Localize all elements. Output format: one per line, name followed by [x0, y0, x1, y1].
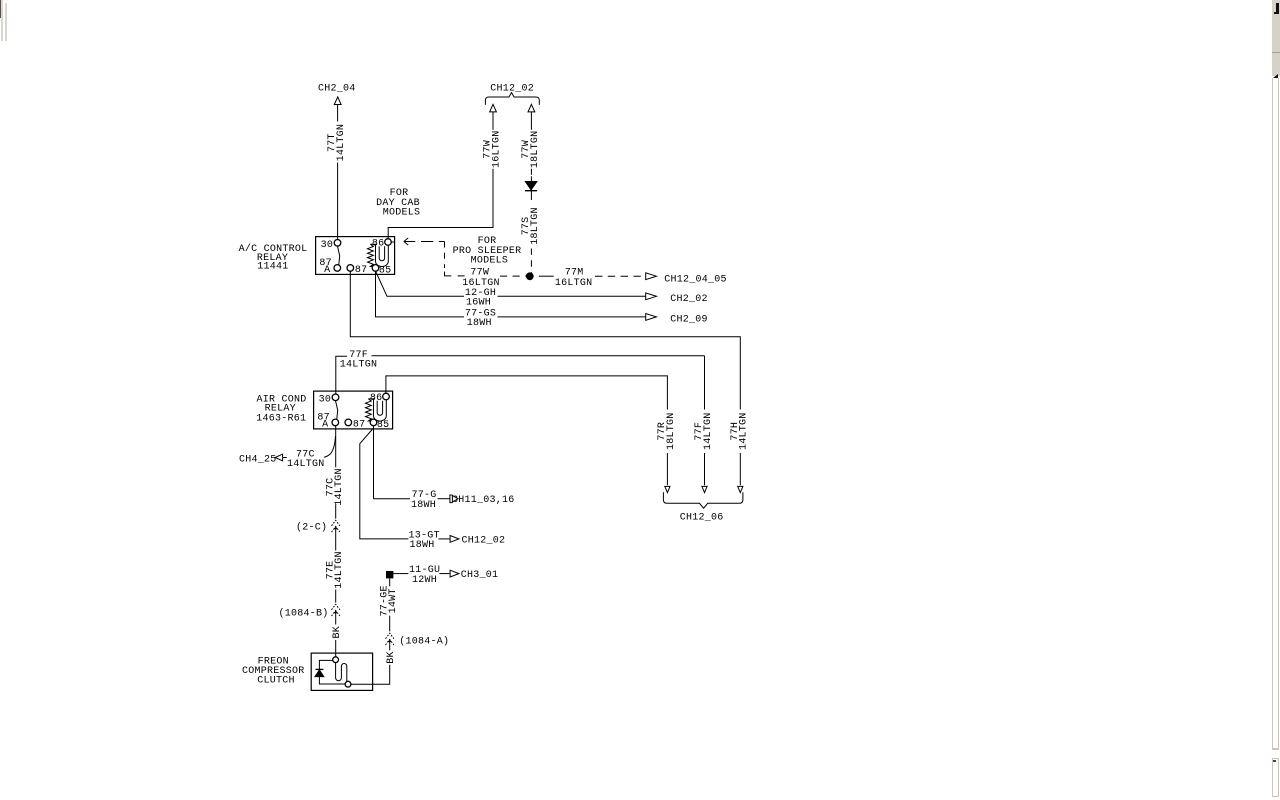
wire 77T lower segment into relay pin 30 [337, 163, 339, 240]
svg-text:MODELS: MODELS [383, 208, 421, 219]
svg-text:CH2_09: CH2_09 [670, 315, 708, 326]
svg-text:18WH: 18WH [411, 500, 436, 511]
wire 77W 18LTGN upper segment [530, 112, 532, 130]
connector arrow to CH2_02 [646, 293, 657, 300]
svg-text:CH12_04_05: CH12_04_05 [664, 274, 727, 285]
wire 77H lower segment [739, 453, 741, 485]
relay U2 air cond relay 1463-R61 switch blade 30-87A [336, 401, 338, 420]
svg-text:16WH: 16WH [466, 298, 491, 309]
wire 12-GH from U1 pin 85 [376, 271, 465, 296]
connector symbol CH12_02 pin A (open triangle) [490, 104, 497, 112]
svg-text:30: 30 [321, 240, 334, 251]
svg-text:MODELS: MODELS [471, 256, 509, 267]
left window-edge fragments [0, 0, 1, 18]
wire BK upper segment [389, 641, 391, 650]
wire 77H from U1 pin 87 to right column [350, 271, 740, 409]
svg-text:86: 86 [370, 393, 383, 404]
svg-text:(1084-A): (1084-A) [399, 635, 449, 647]
wire 77F lower segment [704, 453, 706, 485]
connector symbol CH12_02 pin B (open triangle) [528, 104, 535, 112]
relay U2 air cond relay 1463-R61 terminal 30 [332, 394, 339, 401]
right scrollbar: white track [1272, 78, 1279, 750]
wire 77F down to label [704, 356, 706, 410]
svg-text:18LTGN: 18LTGN [530, 131, 541, 169]
svg-text:14LTGN: 14LTGN [334, 468, 345, 506]
svg-text:CLUTCH: CLUTCH [257, 675, 295, 686]
right scrollbar: black mark top [1276, 3, 1278, 15]
wire 77F from U2 pin 30 up and right [336, 356, 347, 394]
wire stub from U1 pin 86 to box edge [391, 241, 394, 243]
svg-text:(1084-B): (1084-B) [279, 607, 329, 619]
svg-text:CH11_03,16: CH11_03,16 [452, 495, 515, 506]
wire 77E lower segment [335, 590, 337, 603]
wire BK from clutch bottom terminal [351, 665, 390, 684]
relay U1 A/C control relay 11441 terminal 87 [347, 265, 354, 272]
svg-text:18WH: 18WH [467, 318, 492, 329]
clutch terminal (bottom) [345, 681, 351, 687]
wire 13-GT right segment [439, 538, 450, 540]
freon compressor clutch box [311, 653, 372, 690]
wire 77C lower segment [335, 505, 337, 519]
wire 11-GU left segment [393, 573, 408, 575]
connector arrow to CH4_25 (points left) [275, 454, 282, 461]
svg-text:CH3_01: CH3_01 [461, 570, 499, 581]
svg-text:CH4_25: CH4_25 [239, 455, 277, 466]
wire 77R from U2 pin 86 up and right [386, 376, 668, 410]
relay U2 air cond relay 1463-R61 coil (zigzag) [366, 399, 373, 421]
wire 77T upper segment [337, 105, 339, 122]
svg-text:CH12_02: CH12_02 [490, 83, 534, 94]
connector arrow to CH2_09 [646, 314, 657, 321]
inline connector (1084-B) splice symbol [332, 604, 340, 616]
svg-text:16LTGN: 16LTGN [491, 131, 502, 169]
right scrollbar: thumb block [1272, 0, 1280, 76]
wire stub at diode cathode [530, 191, 532, 195]
svg-text:12WH: 12WH [412, 575, 437, 586]
underbrace for CH12_06 [663, 492, 743, 508]
relay U1 A/C control relay 11441 terminal 86 [385, 239, 392, 246]
svg-text:14LTGN: 14LTGN [739, 412, 750, 450]
relay U1 A/C control relay 11441 coil (zigzag) [368, 244, 375, 266]
svg-text:BK: BK [386, 651, 397, 664]
wire 77-GE lower segment [389, 616, 391, 632]
svg-text:14LTGN: 14LTGN [340, 359, 378, 370]
wire 13-GT from U2 pin 85 via diagonal [360, 428, 409, 539]
clutch internal diode [315, 670, 324, 677]
junction dot (splice of 77W/77S/77M) [526, 272, 534, 280]
clutch wiring diode to top terminal [319, 660, 332, 669]
connector symbol CH2_04 (open triangle) [334, 97, 341, 105]
svg-text:87: 87 [355, 265, 368, 276]
dashed wire toward corner [421, 241, 445, 243]
connector symbol CH12_06 pin (77R) [665, 486, 670, 492]
wire 77R lower segment [666, 453, 668, 485]
svg-text:1463-R61: 1463-R61 [256, 414, 306, 425]
wire BK upper segment [335, 612, 337, 624]
dashed wire 77M segment 1 [539, 275, 554, 277]
clutch wiring diode to bottom terminal [319, 677, 345, 684]
svg-text:14LTGN: 14LTGN [336, 124, 347, 162]
svg-text:11441: 11441 [257, 262, 288, 273]
wire 77-GS from U1 pin 85 [376, 271, 465, 317]
dashed wire vertical segment [444, 242, 446, 269]
relay U1 A/C control relay 11441 switch blade 30-87A [338, 246, 340, 265]
wire 77-G right segment [438, 498, 450, 500]
svg-text:CH12_02: CH12_02 [462, 535, 506, 546]
svg-text:18WH: 18WH [410, 540, 435, 551]
svg-text:18LTGN: 18LTGN [530, 207, 541, 245]
wire 11-GU right segment [439, 573, 450, 575]
relay U1 A/C control relay 11441 terminal 30 [334, 240, 341, 247]
relay U2 air cond relay 1463-R61 coil hairpin loop [374, 399, 387, 421]
svg-text:14LTGN: 14LTGN [703, 412, 714, 450]
wire 77C curved branch from U2 pin 87A to CH4_25 label [324, 436, 336, 457]
svg-text:(2-C): (2-C) [296, 521, 327, 533]
svg-text:CH2_02: CH2_02 [670, 294, 708, 305]
right scrollbar: black arrow mark [1273, 74, 1278, 78]
connector arrow to CH12_04_05 [646, 273, 657, 280]
svg-text:85: 85 [379, 265, 392, 276]
wire 12-GH right segment [498, 295, 646, 297]
wire 77-G horizontal [374, 498, 411, 500]
dashed wire 77M segment 2 [595, 275, 646, 277]
inline connector (1084-A) splice symbol [386, 633, 394, 645]
dashed wire 77W 16LTGN segment [458, 275, 465, 277]
svg-text:CH2_04: CH2_04 [318, 83, 356, 94]
clutch coil winding [336, 663, 347, 681]
wire stub at CH4_25 arrow [283, 457, 287, 459]
wire 77W 16LTGN down-left into relay U1 pin 86 [388, 169, 493, 239]
svg-text:85: 85 [377, 420, 390, 431]
junction block (solid square) [386, 571, 393, 578]
clutch terminal (top) [333, 657, 339, 663]
diode D1 (sleeper circuit) [525, 182, 537, 190]
dashed wire 77S upper segment [530, 195, 532, 204]
svg-text:CH12_06: CH12_06 [680, 513, 724, 524]
relay U2 air cond relay 1463-R61 terminal 85 [370, 419, 377, 426]
wire 77-GE upper segment [389, 578, 391, 586]
inline connector (2-C) splice symbol [332, 520, 340, 532]
wire 77C top segment from U2 pin 87A [335, 426, 337, 468]
wire 77W 16LTGN upper segment [492, 112, 494, 130]
dashed wire 77S into junction [530, 249, 532, 275]
svg-text:14WT: 14WT [388, 588, 399, 613]
svg-text:30: 30 [319, 394, 332, 405]
connector arrow to CH12_02 (bottom) [450, 536, 459, 543]
svg-text:16LTGN: 16LTGN [555, 278, 593, 289]
dashed wire corner segment [445, 272, 452, 276]
svg-text:87: 87 [353, 420, 366, 431]
svg-text:14LTGN: 14LTGN [334, 551, 345, 589]
connector bracket+arrow to CH11_03,16 [450, 495, 453, 503]
svg-text:A: A [322, 419, 328, 430]
wire 77F long horizontal [372, 355, 705, 357]
relay U2 air cond relay 1463-R61 terminal 86 [383, 393, 390, 400]
dashed wire into junction [500, 275, 526, 277]
wire stub at diode anode [530, 176, 532, 181]
wire BK into clutch terminal [335, 640, 337, 657]
connector arrow to CH3_01 [450, 570, 459, 577]
connector symbol CH12_06 pin (77F) [702, 486, 707, 492]
wire 77-G from U2 pin 85 down [373, 426, 375, 499]
svg-text:BK: BK [332, 626, 343, 639]
overbrace for CH12_02 [485, 93, 539, 105]
relay box U2 air cond relay 1463-R61 [314, 391, 393, 429]
dashed wire into diode D1 [530, 169, 532, 177]
relay U1 A/C control relay 11441 coil hairpin loop [376, 244, 389, 266]
relay box U1 A/C control relay 11441 [316, 237, 395, 275]
svg-text:A: A [324, 265, 330, 276]
connector symbol CH12_06 pin (77H) [738, 486, 743, 492]
svg-text:18LTGN: 18LTGN [666, 412, 677, 450]
relay U2 air cond relay 1463-R61 terminal 87A [332, 419, 339, 426]
svg-text:14LTGN: 14LTGN [287, 459, 325, 470]
relay U1 A/C control relay 11441 terminal 85 [372, 265, 379, 272]
relay U1 A/C control relay 11441 terminal 87A [334, 265, 341, 272]
relay U2 air cond relay 1463-R61 terminal 87 [345, 419, 352, 426]
wire 77-GS right segment [498, 316, 646, 318]
right scrollbar: lower block [1272, 758, 1279, 797]
wire 77E upper segment [335, 528, 337, 550]
dashed arrow pointing left into U1 pin 86 (pro-sleeper feed) [404, 241, 416, 243]
svg-text:86: 86 [372, 239, 385, 250]
